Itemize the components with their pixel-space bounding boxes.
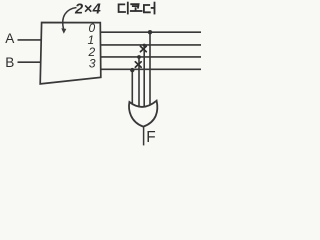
wire input A (18, 39, 42, 41)
svg-text:B: B (5, 55, 14, 70)
wire output 2 (101, 56, 201, 58)
syllable 더 (144, 5, 150, 12)
syllable 코 (131, 4, 138, 8)
wire input B (18, 61, 42, 63)
decoder U1 (2x4 decoder) box (40, 23, 101, 84)
wire output 1 (101, 44, 201, 46)
junction dot output 1 (143, 44, 146, 47)
junction dot output 2 (137, 55, 141, 59)
wire vertical from output 3 to OR gate (131, 69, 133, 110)
syllable 디 (119, 4, 125, 12)
junction dot output 3 (130, 68, 134, 72)
wire output 3 (101, 68, 201, 70)
wire output F (143, 127, 145, 146)
wire vertical from output 2 to OR gate (138, 57, 140, 111)
wire vertical from output 1 to OR gate (143, 45, 145, 111)
svg-text:2×4: 2×4 (74, 2, 101, 18)
svg-text:F: F (146, 129, 155, 146)
junction dot output 0 (148, 30, 152, 34)
or-gate F (4-input OR, pointing down) (129, 101, 157, 127)
connection mark x on output 2 (135, 62, 141, 67)
svg-text:3: 3 (89, 57, 96, 71)
connection mark x on output 1 (140, 46, 146, 51)
svg-text:A: A (5, 31, 15, 46)
annotation arrow into decoder (63, 8, 77, 30)
wire vertical from output 0 to OR gate (149, 32, 151, 110)
label "디코더" (decoder, drawn strokes) (119, 3, 155, 14)
wire output 0 (101, 31, 202, 33)
